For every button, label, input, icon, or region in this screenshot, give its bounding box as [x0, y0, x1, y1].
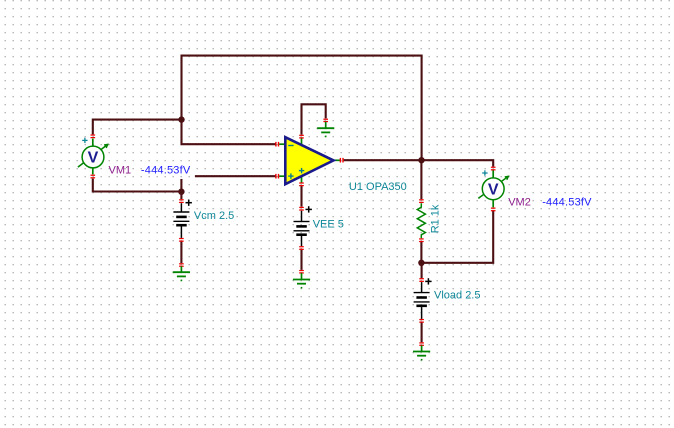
- svg-text:V: V: [88, 150, 99, 167]
- ground above op-amp: [317, 119, 334, 138]
- wire node C to VM2 top: [422, 160, 494, 166]
- pin tick output: [340, 158, 341, 163]
- source Vcm battery: [173, 199, 192, 242]
- wire op-amp bottom pin to VEE: [300, 186, 302, 207]
- wire feedback top horizontal: [181, 55, 423, 57]
- wire VM1 bottom to node B: [93, 179, 182, 192]
- source VEE battery: [294, 206, 312, 250]
- source Vload battery: [414, 278, 432, 323]
- svg-text:U1 OPA350: U1 OPA350: [349, 181, 407, 193]
- pin tick positive supply: [299, 135, 304, 136]
- wire stub node B up: [180, 179, 182, 192]
- pin tick non-inverting input: [275, 174, 276, 179]
- node D junction: [418, 260, 424, 266]
- voltmeter VM1: [78, 134, 108, 178]
- wire to non-inverting input: [195, 175, 276, 177]
- wire feedback right vertical: [421, 56, 423, 161]
- node B junction: [178, 189, 184, 195]
- svg-text:R1 1k: R1 1k: [430, 204, 442, 233]
- svg-text:-444.53fV: -444.53fV: [141, 164, 191, 176]
- pin tick inverting input: [275, 142, 276, 147]
- node C junction: [418, 157, 424, 163]
- op-amp U1: [275, 135, 343, 187]
- node A junction: [178, 116, 184, 122]
- wire Vload bottom pin to ground pin: [421, 322, 423, 343]
- wire node D to VM2 bottom: [421, 210, 493, 262]
- svg-text:Vload 2.5: Vload 2.5: [434, 289, 480, 301]
- resistor R1: [417, 199, 425, 242]
- svg-text:VEE 5: VEE 5: [313, 218, 344, 230]
- voltmeter VM2: [478, 167, 508, 212]
- wire VM1 top to node A: [93, 120, 182, 135]
- pin tick negative supply: [299, 182, 304, 183]
- ground below Vload: [413, 342, 430, 360]
- wire node B to Vcm top pin: [180, 192, 182, 200]
- ground below VEE: [293, 270, 310, 289]
- wire VEE bottom pin to ground pin: [300, 249, 302, 270]
- ground below Vcm: [173, 263, 190, 281]
- wire R1 to node D: [420, 241, 422, 263]
- wire op-amp output to node C: [344, 159, 422, 161]
- wire node C to R1: [420, 160, 422, 199]
- svg-text:VM1: VM1: [109, 164, 132, 176]
- wire feedback left vertical: [180, 56, 182, 120]
- wire node D to Vload top pin: [421, 263, 423, 278]
- svg-text:VM2: VM2: [508, 197, 531, 209]
- svg-text:Vcm 2.5: Vcm 2.5: [194, 210, 234, 222]
- wire node A to inverting input: [182, 120, 276, 145]
- wire Vcm bottom pin to ground pin: [180, 241, 182, 264]
- svg-text:V: V: [488, 181, 499, 198]
- wire op-amp top pin to ground: [302, 104, 326, 134]
- svg-text:-444.53fV: -444.53fV: [542, 197, 592, 209]
